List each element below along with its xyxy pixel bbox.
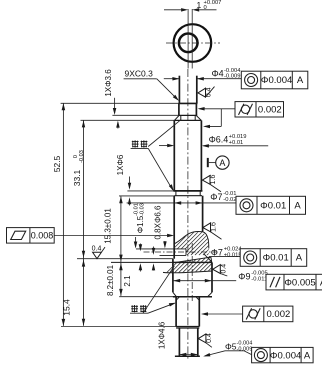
front view eccentric centerline: [187, 69, 189, 361]
label 1x3.6 groove leader: [114, 98, 116, 113]
svg-text:A: A: [294, 201, 301, 212]
shaft section below shoulder: [178, 103, 180, 115]
svg-text:Φ5: Φ5: [225, 341, 237, 351]
svg-text:A: A: [219, 158, 225, 168]
frame concentricity 0.01 A (mid): [236, 196, 306, 214]
phi6.4 bottom face (thick): [173, 190, 202, 192]
dimension 1 +0.007/0 eccentricity (top, clipped): [164, 9, 181, 11]
groove 1x3.6 walls: [180, 115, 182, 120]
svg-text:1XΦ6: 1XΦ6: [116, 154, 125, 175]
frame parallelism 0.005 A: [266, 274, 322, 290]
flatness frame 0.008: [7, 228, 55, 244]
phi6.4 top chamfer diagonals: [175, 116, 179, 121]
flatness leader: [54, 235, 172, 237]
svg-text:1: 1: [197, 0, 202, 10]
dimension between hole bottom and flange arrows: [153, 247, 155, 254]
knurl label bottom: [131, 305, 138, 307]
S2 wavy bottom: [163, 271, 212, 273]
dimension phi4 -0.004/-0.009 line into frame: [164, 78, 180, 80]
extension line y120.3 (33.1 datum): [81, 119, 175, 121]
frame cylindricity 0.002 (bottom): [243, 306, 293, 322]
svg-text:Φ1.5: Φ1.5: [136, 215, 145, 233]
svg-text:1.6: 1.6: [210, 175, 217, 185]
flange bottom face: [119, 296, 212, 298]
svg-text:Φ0.004: Φ0.004: [270, 350, 301, 361]
cross hole phi1.5 bottom line: [160, 254, 187, 256]
frame concentricity 0.01 A (lower): [240, 249, 307, 267]
knurl label top: [132, 141, 139, 143]
svg-text:-0.03: -0.03: [79, 150, 85, 163]
svg-text:1.6: 1.6: [211, 222, 218, 232]
svg-text:0.008: 0.008: [31, 231, 54, 241]
svg-text:9XC0.3: 9XC0.3: [125, 69, 154, 79]
svg-text:A: A: [297, 75, 304, 86]
svg-text:0.8XΦ6.6: 0.8XΦ6.6: [153, 205, 162, 240]
frame concentricity 0.004 A (top): [241, 71, 307, 89]
svg-text:Φ6.4: Φ6.4: [209, 135, 229, 145]
svg-text:Φ0.01: Φ0.01: [260, 201, 286, 212]
extension line y115.3 (groove top): [112, 114, 178, 116]
extension line y326.5: [61, 326, 199, 328]
groove 1x6 bottom line: [174, 195, 202, 197]
frame cylindricity 0.002 (top): [235, 102, 284, 117]
svg-text:-0.011: -0.011: [251, 277, 267, 283]
flange left edge: [172, 259, 174, 293]
groove 1x4.6 line: [176, 327, 199, 329]
flange right edge: [211, 262, 213, 292]
broken-out section wave S1: [174, 232, 209, 249]
phi6.4 cylinder sides: [173, 120, 175, 190]
roughness 0.4 on knurl top line: [93, 252, 102, 258]
extension line y190.9: [127, 190, 173, 192]
svg-text:0.002: 0.002: [267, 309, 291, 320]
bottom face: [175, 355, 200, 357]
shoulder at y103 (52.5 datum): [178, 102, 197, 104]
svg-text:-0.009: -0.009: [224, 74, 240, 80]
dimension phi5 bottom arrows: [179, 354, 197, 356]
svg-text:Φ0.005: Φ0.005: [284, 277, 315, 288]
svg-text:0: 0: [204, 5, 207, 11]
cylindricity bottom leader: [203, 313, 243, 315]
svg-text:0.4: 0.4: [92, 245, 102, 252]
flange bottom chamfers: [173, 292, 176, 296]
svg-text:1XΦ3.6: 1XΦ3.6: [104, 69, 113, 97]
roughness 0.4 phi4: [198, 88, 206, 97]
dimension 2.1 arrows: [139, 244, 141, 250]
shaft phi4 top section: [178, 76, 180, 104]
extension line y103.3 (52.5 datum): [61, 102, 179, 104]
svg-text:0.4: 0.4: [220, 264, 227, 274]
knurled section sides: [175, 297, 177, 327]
groove 1x3.6 shoulder line: [178, 114, 197, 116]
roughness 1.6 phi6.4: [202, 175, 210, 184]
end view eccentric axis vertical line: [187, 9, 189, 69]
svg-text:1XΦ4.6: 1XΦ4.6: [157, 321, 166, 349]
svg-text:0.4: 0.4: [206, 87, 213, 97]
svg-text:-0.02: -0.02: [223, 197, 236, 203]
svg-text:15.4: 15.4: [62, 299, 72, 316]
svg-text:Φ9: Φ9: [238, 271, 250, 281]
front view flange axis centerline: [191, 243, 193, 301]
svg-text:+0.015: +0.015: [224, 253, 242, 259]
svg-text:Φ7: Φ7: [210, 192, 222, 202]
svg-text:0.4: 0.4: [206, 333, 213, 343]
extension line y196: [119, 195, 174, 197]
phi7 cylinder sides: [173, 196, 175, 259]
end view inner circle (eccentric phi4/phi6.4): [179, 34, 198, 53]
svg-text:A: A: [304, 350, 311, 361]
cross hole phi1.5 top line: [136, 248, 186, 250]
dimension 15.4 arrows: [82, 260, 85, 267]
svg-text:8.2±0.01: 8.2±0.01: [106, 264, 115, 296]
svg-text:15.3±0.01: 15.3±0.01: [104, 208, 113, 244]
knurled section top chamfers: [176, 297, 179, 300]
S2 right side: [211, 257, 212, 271]
svg-text:Φ0.01: Φ0.01: [263, 253, 289, 264]
dimension phi7 line: [127, 202, 236, 204]
datum A symbol: [207, 158, 209, 167]
end view main axis vertical line: [191, 9, 193, 69]
end view horizontal centerline: [166, 42, 220, 44]
frame concentricity 0.004 A (bottom): [252, 347, 314, 362]
roughness 0.4 flange: [213, 265, 221, 274]
phi5 bottom section sides: [178, 328, 180, 356]
svg-text:Φ0.004: Φ0.004: [261, 75, 292, 86]
svg-text:+0.01: +0.01: [229, 140, 244, 146]
roughness 0.4 phi5: [198, 334, 206, 343]
dimension phi9 line with label: [173, 280, 236, 282]
groove 1x6 walls: [175, 191, 177, 196]
svg-text:A: A: [296, 253, 303, 264]
cross hole end wall: [185, 249, 187, 256]
roughness 1.6 phi7: [203, 223, 211, 232]
svg-text:2.1: 2.1: [123, 275, 132, 287]
cross hole centerline: [144, 251, 217, 253]
svg-text:-0.03: -0.03: [139, 203, 145, 216]
svg-text:-0.009: -0.009: [237, 347, 253, 353]
svg-text:33.1: 33.1: [72, 169, 82, 186]
flange top face (thick): [111, 261, 212, 263]
broken-out section S2 slant top: [173, 257, 211, 263]
svg-text:Φ4: Φ4: [212, 69, 224, 79]
phi6.4 top face: [174, 119, 201, 121]
knurl top extension line y258.7: [77, 258, 173, 260]
svg-text:52.5: 52.5: [52, 155, 62, 172]
label phi1.5 leader: [135, 237, 137, 247]
label 1x6 groove leader: [129, 177, 131, 189]
label 0.8x6.6 leader: [164, 241, 166, 247]
flange top-right chamfer: [204, 254, 212, 263]
svg-text:Φ7: Φ7: [211, 247, 223, 257]
end view outer circle (phi9 OD): [174, 24, 212, 62]
dimension 15.3 / 8.2 vertical line: [120, 196, 122, 296]
cylindricity top leaders: [200, 108, 236, 110]
svg-text:0.002: 0.002: [258, 105, 282, 116]
dimension 33.1 0/-0.03 vertical line: [83, 120, 85, 325]
dimension 52.5 vertical line: [62, 103, 64, 326]
